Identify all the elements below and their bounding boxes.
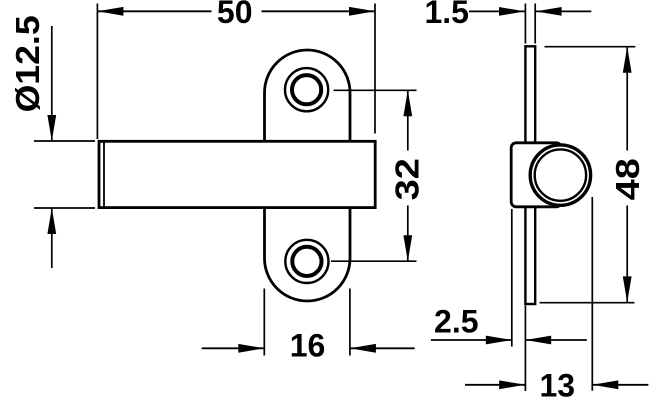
svg-text:48: 48: [609, 158, 646, 200]
dim 1.5 left arrow (points right): [499, 7, 525, 16]
dim 50 left arrow: [97, 7, 123, 16]
dim 48 line lower segment: [626, 206, 628, 303]
dim 16 left tail line: [202, 347, 265, 349]
dim 32 top leader from hole centre: [334, 89, 417, 91]
dim 32 line upper segment: [407, 90, 409, 150]
dim 13 left arrow (points right): [499, 380, 525, 389]
top screw hole outer circle: [285, 68, 328, 111]
dim 16 right arrow (points left): [350, 344, 376, 353]
dim 32 line lower segment: [407, 206, 409, 262]
dim 50 left extension line: [96, 4, 98, 140]
dim 50 line right segment: [262, 10, 376, 12]
dim 13 right extension line (pin circle right edge): [591, 197, 593, 391]
dim 1.5 right arrow (points left): [536, 7, 562, 16]
dim 16 left arrow (points right): [238, 344, 264, 353]
dim 12.5 bottom extension line: [34, 207, 95, 209]
svg-text:Ø12.5: Ø12.5: [10, 15, 47, 112]
dim 2.5 / 13 shared extension line (strip left edge): [524, 306, 526, 392]
dim 1.5 left extension line: [524, 4, 526, 44]
dim 2.5 left arrow (points right): [486, 336, 512, 345]
dim 32 lower arrow (points down): [403, 235, 412, 261]
side pin outer circle: [530, 145, 590, 205]
dim 2.5 left extension line (block left edge): [511, 209, 513, 347]
bottom screw hole inner ring: [292, 247, 321, 276]
side plate strip: [525, 46, 535, 304]
bar left end chamfer line: [103, 141, 105, 207]
dim 32 bottom leader from hole centre: [331, 260, 417, 262]
dim 50 line left segment: [97, 10, 211, 12]
dim 13 right arrow (points left): [592, 380, 618, 389]
dim 12.5 upper arrow (points down): [47, 115, 56, 141]
dim 2.5 left tail line: [431, 339, 512, 341]
dim 12.5 lower arrow (points up): [47, 208, 56, 234]
dim 1.5 right tail line: [536, 10, 592, 12]
dim 12.5 upper arrow line: [51, 26, 53, 141]
svg-text:13: 13: [540, 368, 576, 400]
dim 48 upper arrow (points up): [623, 47, 632, 73]
mounting plate (stadium outline): [265, 50, 351, 301]
svg-text:2.5: 2.5: [434, 303, 478, 339]
dim 1.5 right extension line: [534, 4, 536, 44]
svg-text:50: 50: [217, 0, 253, 30]
dim 48 bottom extension line: [540, 302, 635, 304]
dim 2.5 right arrow (points left): [525, 336, 551, 345]
dim 2.5 right tail line: [525, 339, 587, 341]
dim 16 right extension line: [349, 289, 351, 356]
latch bar (pin, front view): [99, 141, 375, 207]
dim 1.5 left tail line: [469, 10, 525, 12]
dim 16 right tail line: [350, 347, 415, 349]
dim 32 upper arrow (points up): [403, 90, 412, 116]
dim 48 lower arrow (points down): [623, 276, 632, 302]
dim 16 left extension line: [263, 289, 265, 356]
dim 48 top extension line: [545, 46, 636, 48]
dim 50 right extension line: [374, 4, 376, 134]
top screw hole inner ring: [292, 75, 321, 104]
svg-text:16: 16: [290, 328, 326, 364]
dim 13 left tail line: [465, 384, 525, 386]
dim 50 right arrow: [349, 7, 375, 16]
dim 12.5 lower arrow line: [51, 208, 53, 268]
svg-text:32: 32: [389, 158, 426, 200]
bottom screw hole outer circle: [285, 240, 328, 283]
dim 13 right tail line: [592, 384, 648, 386]
dim 12.5 top extension line: [34, 140, 95, 142]
dim 48 line upper segment: [626, 47, 628, 151]
side pin inner circle: [535, 149, 586, 200]
svg-text:1.5: 1.5: [424, 0, 468, 30]
side pin housing block: [511, 143, 561, 207]
